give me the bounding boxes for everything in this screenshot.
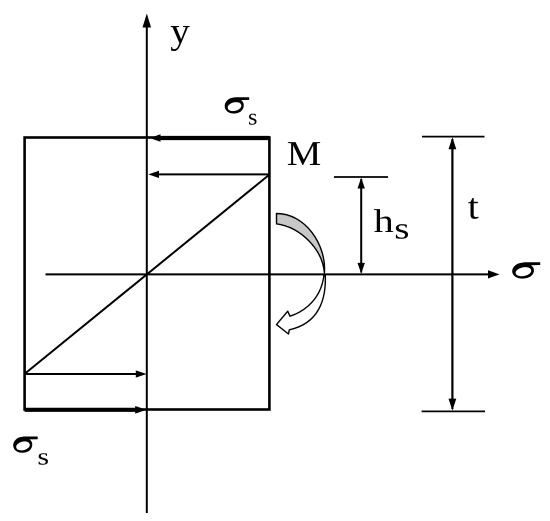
svg-text:t: t [468,186,479,227]
hs dimension double arrow [358,178,365,274]
t dimension double arrow [449,137,457,410]
moment curved arrow: gray crescent (upper half) [277,213,325,272]
svg-text:s: s [248,104,257,129]
svg-text:s: s [37,444,49,470]
y-axis [143,14,152,514]
section rectangle [25,138,270,410]
t dimension top tick [422,136,485,138]
hs dimension top tick [334,176,388,178]
svg-text:s: s [394,212,409,246]
t dimension bottom tick [422,410,485,412]
svg-text:h: h [374,204,395,240]
svg-text:M: M [287,134,322,173]
elastic-core bottom stress arrow (rightward) [25,370,147,377]
top sigma_s label: sigma [225,97,250,113]
moment curved arrow: white tail with open head (lower half) [277,275,326,334]
bottom sigma_s label: sigma [13,437,38,453]
sigma-axis [46,270,500,278]
sigma-axis label sigma [512,262,540,278]
bottom yield stress arrow (thick, rightward) [25,406,147,414]
top yield stress arrow (thick, leftward) [150,134,270,142]
svg-text:y: y [170,11,190,52]
elastic-core top stress arrow (leftward at hs level) [148,171,269,178]
diagonal stress line [25,175,270,374]
